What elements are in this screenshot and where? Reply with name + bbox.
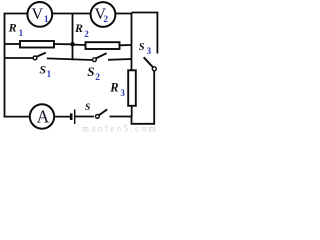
svg-text:R: R: [109, 81, 118, 95]
wire switch S to right: [110, 116, 133, 118]
switch S: [85, 103, 107, 118]
wire bottom left segment: [4, 116, 30, 118]
svg-text:manfen5.com: manfen5.com: [82, 124, 156, 134]
wire right inner vertical (to R3): [131, 13, 133, 71]
wire bottom right step vertical: [131, 117, 133, 125]
svg-text:R: R: [74, 21, 83, 35]
wire R2 left lead: [73, 44, 86, 46]
svg-text:S: S: [85, 103, 90, 113]
voltmeter V1: [27, 2, 52, 27]
battery positive plate: [74, 109, 76, 124]
wire bottom right horizontal: [132, 123, 156, 125]
ammeter A: [30, 104, 54, 128]
svg-text:A: A: [37, 106, 50, 126]
svg-text:S: S: [39, 62, 46, 76]
wire R3 bottom lead: [131, 106, 133, 118]
battery negative plate: [70, 113, 73, 120]
wire top far right segment: [132, 12, 159, 14]
resistor R1: [8, 21, 54, 48]
switch S1: [33, 53, 52, 79]
voltmeter V2: [91, 2, 116, 27]
resistor R3: [109, 70, 136, 106]
wire right border upper (S3 fixed contact lead): [156, 12, 158, 54]
resistor R2: [74, 21, 120, 49]
wire ammeter to battery: [54, 116, 70, 118]
wire R2 right lead: [120, 44, 132, 46]
wire right lower vertical: [153, 71, 155, 125]
svg-text:2: 2: [84, 29, 89, 39]
wire middle vertical between V1 and V2: [72, 14, 74, 61]
node junction dot: [70, 42, 75, 47]
wire left border: [4, 14, 6, 118]
wire top right segment: [115, 13, 132, 15]
wire S1 to S2: [47, 58, 93, 60]
svg-text:2: 2: [103, 15, 108, 25]
svg-text:3: 3: [120, 88, 125, 98]
svg-text:S: S: [87, 64, 94, 79]
svg-text:S: S: [139, 42, 145, 53]
svg-text:2: 2: [95, 73, 100, 83]
wire top left segment: [4, 13, 28, 15]
wire R1 right lead: [54, 43, 73, 45]
svg-text:3: 3: [147, 46, 152, 56]
wire battery to switch S: [75, 116, 94, 118]
wire S2 to right vertical: [108, 58, 132, 61]
wire top middle segment: [52, 13, 91, 15]
svg-text:1: 1: [44, 15, 49, 25]
switch S2: [87, 53, 106, 83]
wire R1 left lead: [5, 43, 20, 45]
svg-text:V: V: [32, 6, 44, 23]
svg-text:1: 1: [47, 69, 52, 79]
svg-text:1: 1: [19, 28, 24, 38]
switch S3: [139, 42, 157, 71]
wire S1 left lead: [5, 57, 34, 59]
svg-text:R: R: [8, 21, 17, 35]
